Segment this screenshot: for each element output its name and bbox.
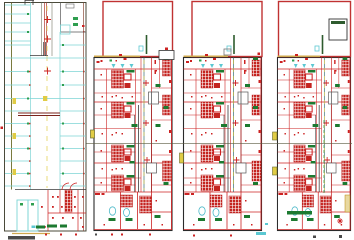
garage left inner wall [11,3,13,190]
left stalls group C [5,111,86,186]
lobby stair hatch [65,190,72,212]
lobby scattered red dots [41,196,84,228]
panel4 bottom marks [313,236,316,239]
terrace3 cyan box [227,46,231,51]
terrace2 tan slab [94,55,140,57]
panel4 tan strip [345,195,350,212]
panel3 balcony bump yellow [180,153,184,163]
terrace2 green shaft [146,35,148,54]
red dots under panel2 [111,234,151,236]
aisle left red line [44,3,46,56]
panel4 balcony bumps [273,132,278,140]
aisle yellow center dashes [46,6,48,188]
terrace2 red tick [119,54,122,56]
terrace3 red dash right [258,53,261,56]
terrace rect 3 [192,2,262,57]
cross aisle line 1 [5,57,86,59]
caption PL SOTANO [8,236,35,240]
right inner wall [83,3,85,232]
terrace3 green shaft [233,35,235,54]
datum line across [87,142,353,144]
lobby green dots [20,203,23,206]
garage top stair structure [25,0,34,5]
garage lobby top wall [15,189,86,191]
left stalls group B [5,45,86,85]
aisle red crosses [44,16,51,75]
terrace4 red tick [295,54,298,56]
tan line under lobby [12,233,50,235]
aisle top structure [30,42,48,56]
yellow column markers [13,96,48,175]
panel4 red star [337,218,343,224]
red dots under panel3 [193,235,232,237]
apartment block 4 [277,58,350,231]
left stall depth line [30,3,32,190]
lobby green labels row [36,225,67,229]
lobby cyan room right [28,200,38,231]
top right utility room [61,3,87,35]
aisle left black line [41,3,43,57]
panel2 balcony bump [91,130,95,138]
panel3 bottom cyan text [256,232,266,235]
left stalls group A [5,5,86,45]
panel2 annotation box [159,51,174,60]
cross aisle line 2 [5,98,86,100]
lobby red walls [48,183,86,231]
stall red ticks [29,31,85,187]
panel4 top right annotation box [329,19,347,40]
lobby cyan room left [17,200,28,231]
stall end green dots [27,13,64,175]
lobby cyan small label [32,226,36,229]
left edge red mark [1,127,4,130]
terrace4 green shaft [322,35,324,54]
terrace3 red tick [205,54,208,56]
aisle right red line [46,3,48,56]
terrace4 tan slab [278,55,321,57]
aisle right black line [51,3,53,57]
terrace2 cyan box [139,46,143,51]
ramp dark red double line [18,113,60,116]
terrace rect 2 [103,2,173,57]
apartment block 2 [94,58,172,231]
terrace rect 4 [279,2,351,57]
terrace4 cyan box [315,46,319,51]
right stall depth line [59,32,61,190]
terrace2 red mark right [165,48,168,51]
panel4 corridor green dashed line [323,120,325,195]
red dots under garage [45,234,77,236]
terrace3 gray stub [224,49,231,55]
panel4 ground green text [287,211,312,215]
terrace3 tan slab [184,55,229,57]
apartment block 3 [184,58,262,231]
panel4 box green bar [331,21,345,24]
garage outer border [5,3,87,232]
